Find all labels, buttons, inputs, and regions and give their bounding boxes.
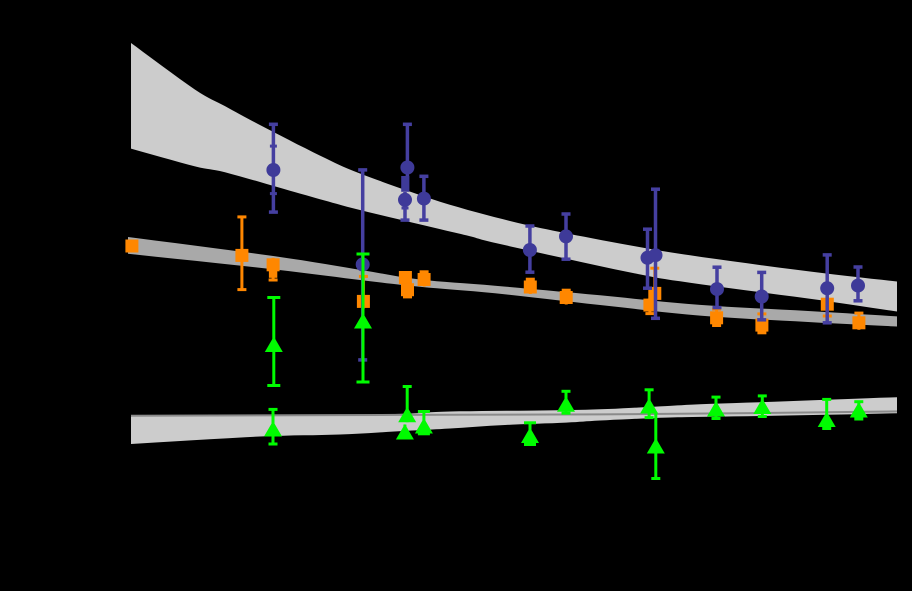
blue circle point B3 [398, 192, 412, 220]
middle theory band [128, 237, 897, 327]
green triangle point G5 [396, 424, 414, 440]
green triangle point G11 [707, 397, 725, 418]
upper theory uncertainty band [131, 43, 897, 312]
blue circle point B5 [356, 170, 370, 360]
orange square point O6 [418, 272, 431, 287]
green triangle point G7 [521, 423, 539, 445]
blue circle point B2 [400, 124, 414, 192]
green triangle point G2 [265, 298, 283, 386]
orange square point O8 [560, 290, 573, 304]
orange square point O13 [821, 297, 834, 316]
orange square point O2 [235, 217, 248, 290]
orange square point O11 [710, 309, 723, 325]
blue circle point B13 [851, 267, 865, 301]
blue circle point B1 [266, 124, 280, 212]
orange square point O12 [755, 314, 768, 333]
orange square point O4 [357, 276, 370, 308]
orange square point O5a [399, 271, 412, 284]
green triangle point G3 [354, 254, 372, 382]
blue circle point B8 [641, 229, 655, 288]
green triangle point G8 [557, 391, 575, 413]
green triangle point G6 [415, 412, 433, 434]
blue circle point B6 [523, 226, 537, 272]
green triangle point G14 [850, 402, 868, 419]
lower band central line [131, 411, 897, 415]
orange square point O7 [524, 279, 537, 294]
blue circle point B4 [417, 176, 431, 220]
green triangle point G12 [753, 396, 771, 417]
blue circle point B10 [710, 267, 724, 307]
green triangle point G13 [818, 399, 836, 428]
blue circle point B11 [755, 272, 769, 319]
orange square point O14 [852, 313, 865, 330]
green triangle point G9 [640, 390, 658, 418]
orange square point O9 [643, 298, 656, 314]
orange square point O3 [267, 258, 280, 280]
blue circle point B9 [649, 189, 663, 318]
orange square point O10 [648, 268, 661, 300]
orange square point O1 [125, 240, 138, 253]
green triangle point G4 [398, 387, 416, 423]
green triangle point G1 [264, 409, 282, 444]
blue circle point B7 [559, 214, 573, 259]
green triangle point G10 [647, 412, 665, 479]
lower theory uncertainty band [131, 397, 897, 444]
blue circle point B12 [820, 255, 834, 323]
orange square point O5b [401, 283, 414, 297]
